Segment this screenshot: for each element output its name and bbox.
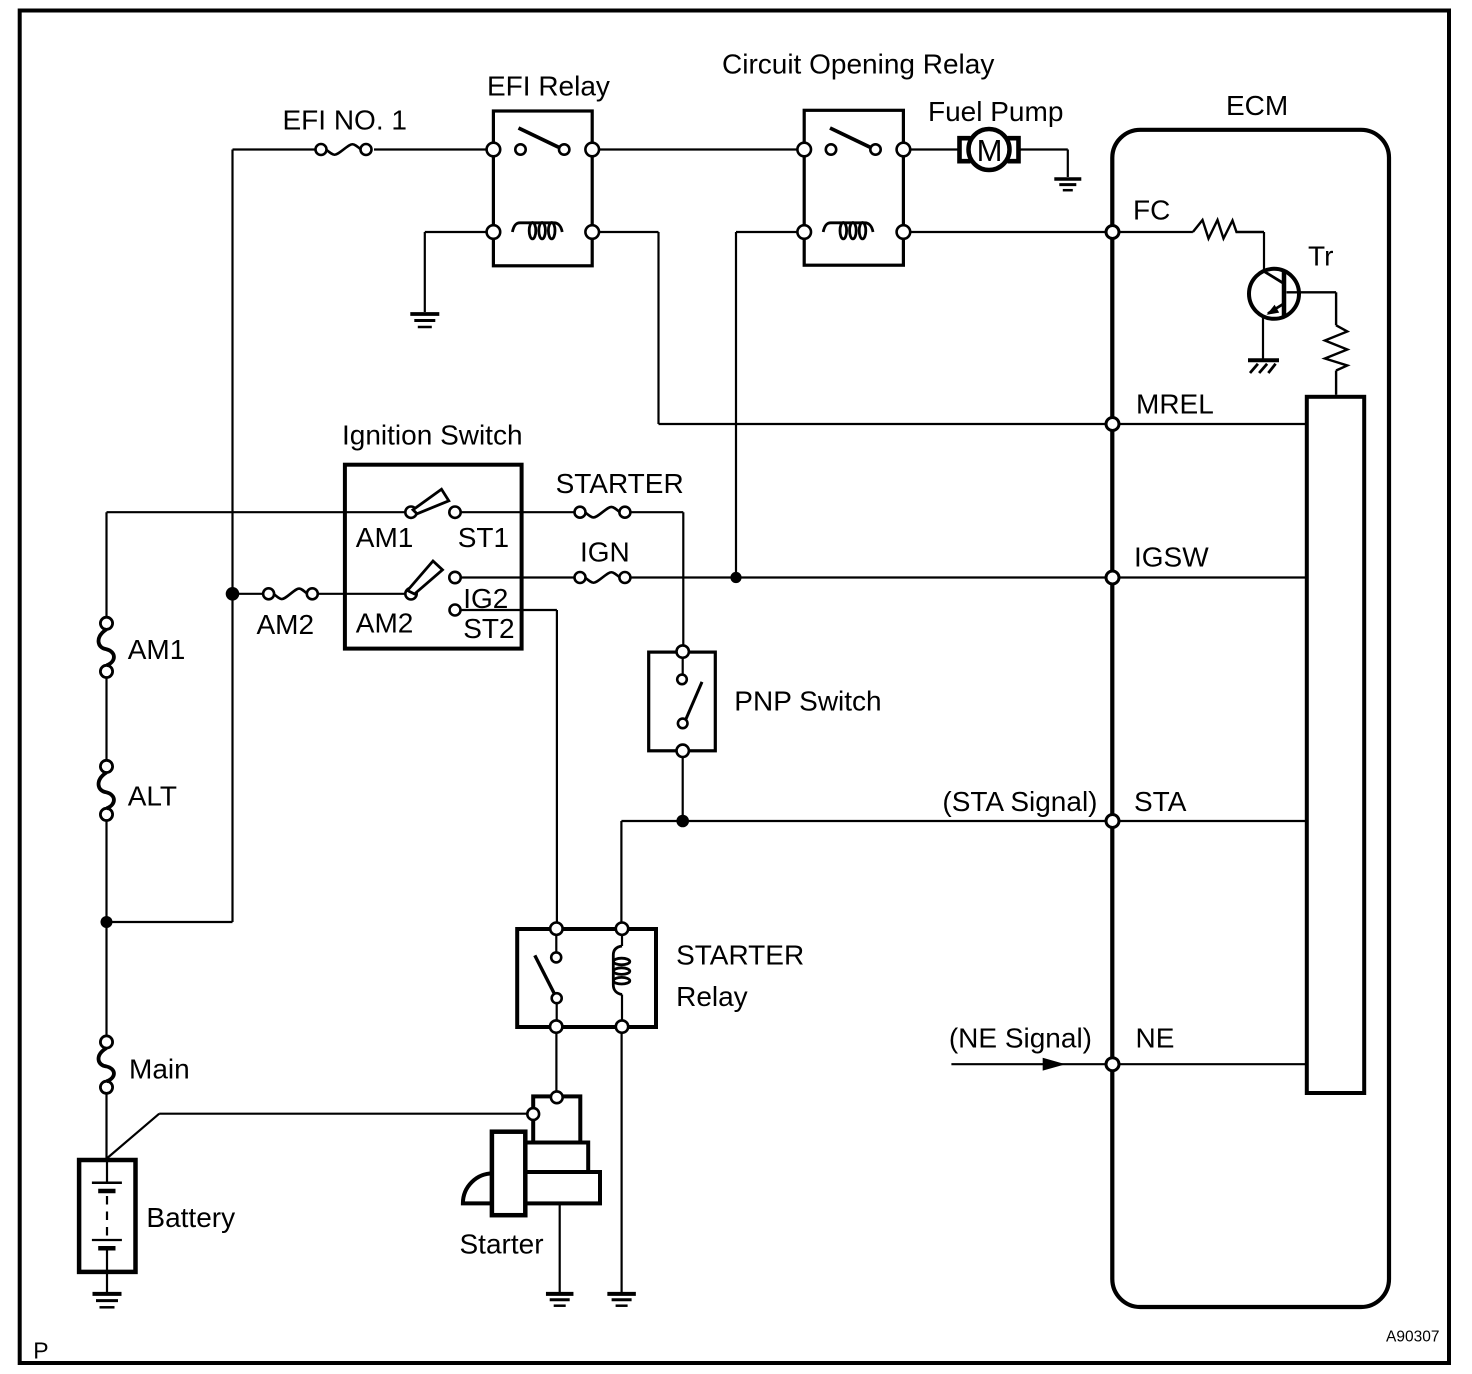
svg-text:MREL: MREL	[1136, 389, 1214, 420]
svg-text:AM2: AM2	[356, 607, 414, 638]
svg-text:ST1: ST1	[458, 522, 509, 553]
svg-text:STARTER: STARTER	[556, 468, 684, 499]
svg-text:A90307: A90307	[1386, 1329, 1439, 1346]
svg-text:AM1: AM1	[356, 522, 414, 553]
svg-text:PNP Switch: PNP Switch	[734, 686, 881, 717]
svg-text:EFI Relay: EFI Relay	[487, 71, 610, 102]
svg-text:Relay: Relay	[676, 981, 748, 1012]
svg-text:STA: STA	[1134, 786, 1187, 817]
svg-text:EFI NO. 1: EFI NO. 1	[283, 105, 407, 136]
svg-text:AM2: AM2	[257, 609, 315, 640]
svg-text:Fuel Pump: Fuel Pump	[928, 96, 1063, 127]
svg-text:(STA Signal): (STA Signal)	[942, 786, 1097, 817]
svg-text:M: M	[977, 133, 1003, 168]
svg-text:Ignition Switch: Ignition Switch	[342, 419, 523, 450]
svg-text:IGSW: IGSW	[1134, 542, 1209, 573]
svg-text:ST2: ST2	[463, 613, 514, 644]
svg-text:Circuit Opening Relay: Circuit Opening Relay	[722, 49, 994, 80]
svg-text:Main: Main	[129, 1054, 190, 1085]
svg-text:STARTER: STARTER	[676, 940, 804, 971]
svg-text:NE: NE	[1136, 1023, 1175, 1054]
svg-text:ALT: ALT	[128, 780, 177, 811]
svg-text:P: P	[33, 1338, 48, 1364]
svg-text:Tr: Tr	[1308, 241, 1333, 272]
svg-text:Battery: Battery	[146, 1202, 235, 1233]
svg-text:(NE Signal): (NE Signal)	[949, 1023, 1092, 1054]
svg-text:ECM: ECM	[1226, 90, 1288, 121]
svg-text:FC: FC	[1133, 195, 1170, 226]
svg-text:IG2: IG2	[463, 583, 508, 614]
svg-text:Starter: Starter	[460, 1228, 544, 1259]
svg-text:AM1: AM1	[128, 634, 186, 665]
svg-text:IGN: IGN	[580, 537, 630, 568]
